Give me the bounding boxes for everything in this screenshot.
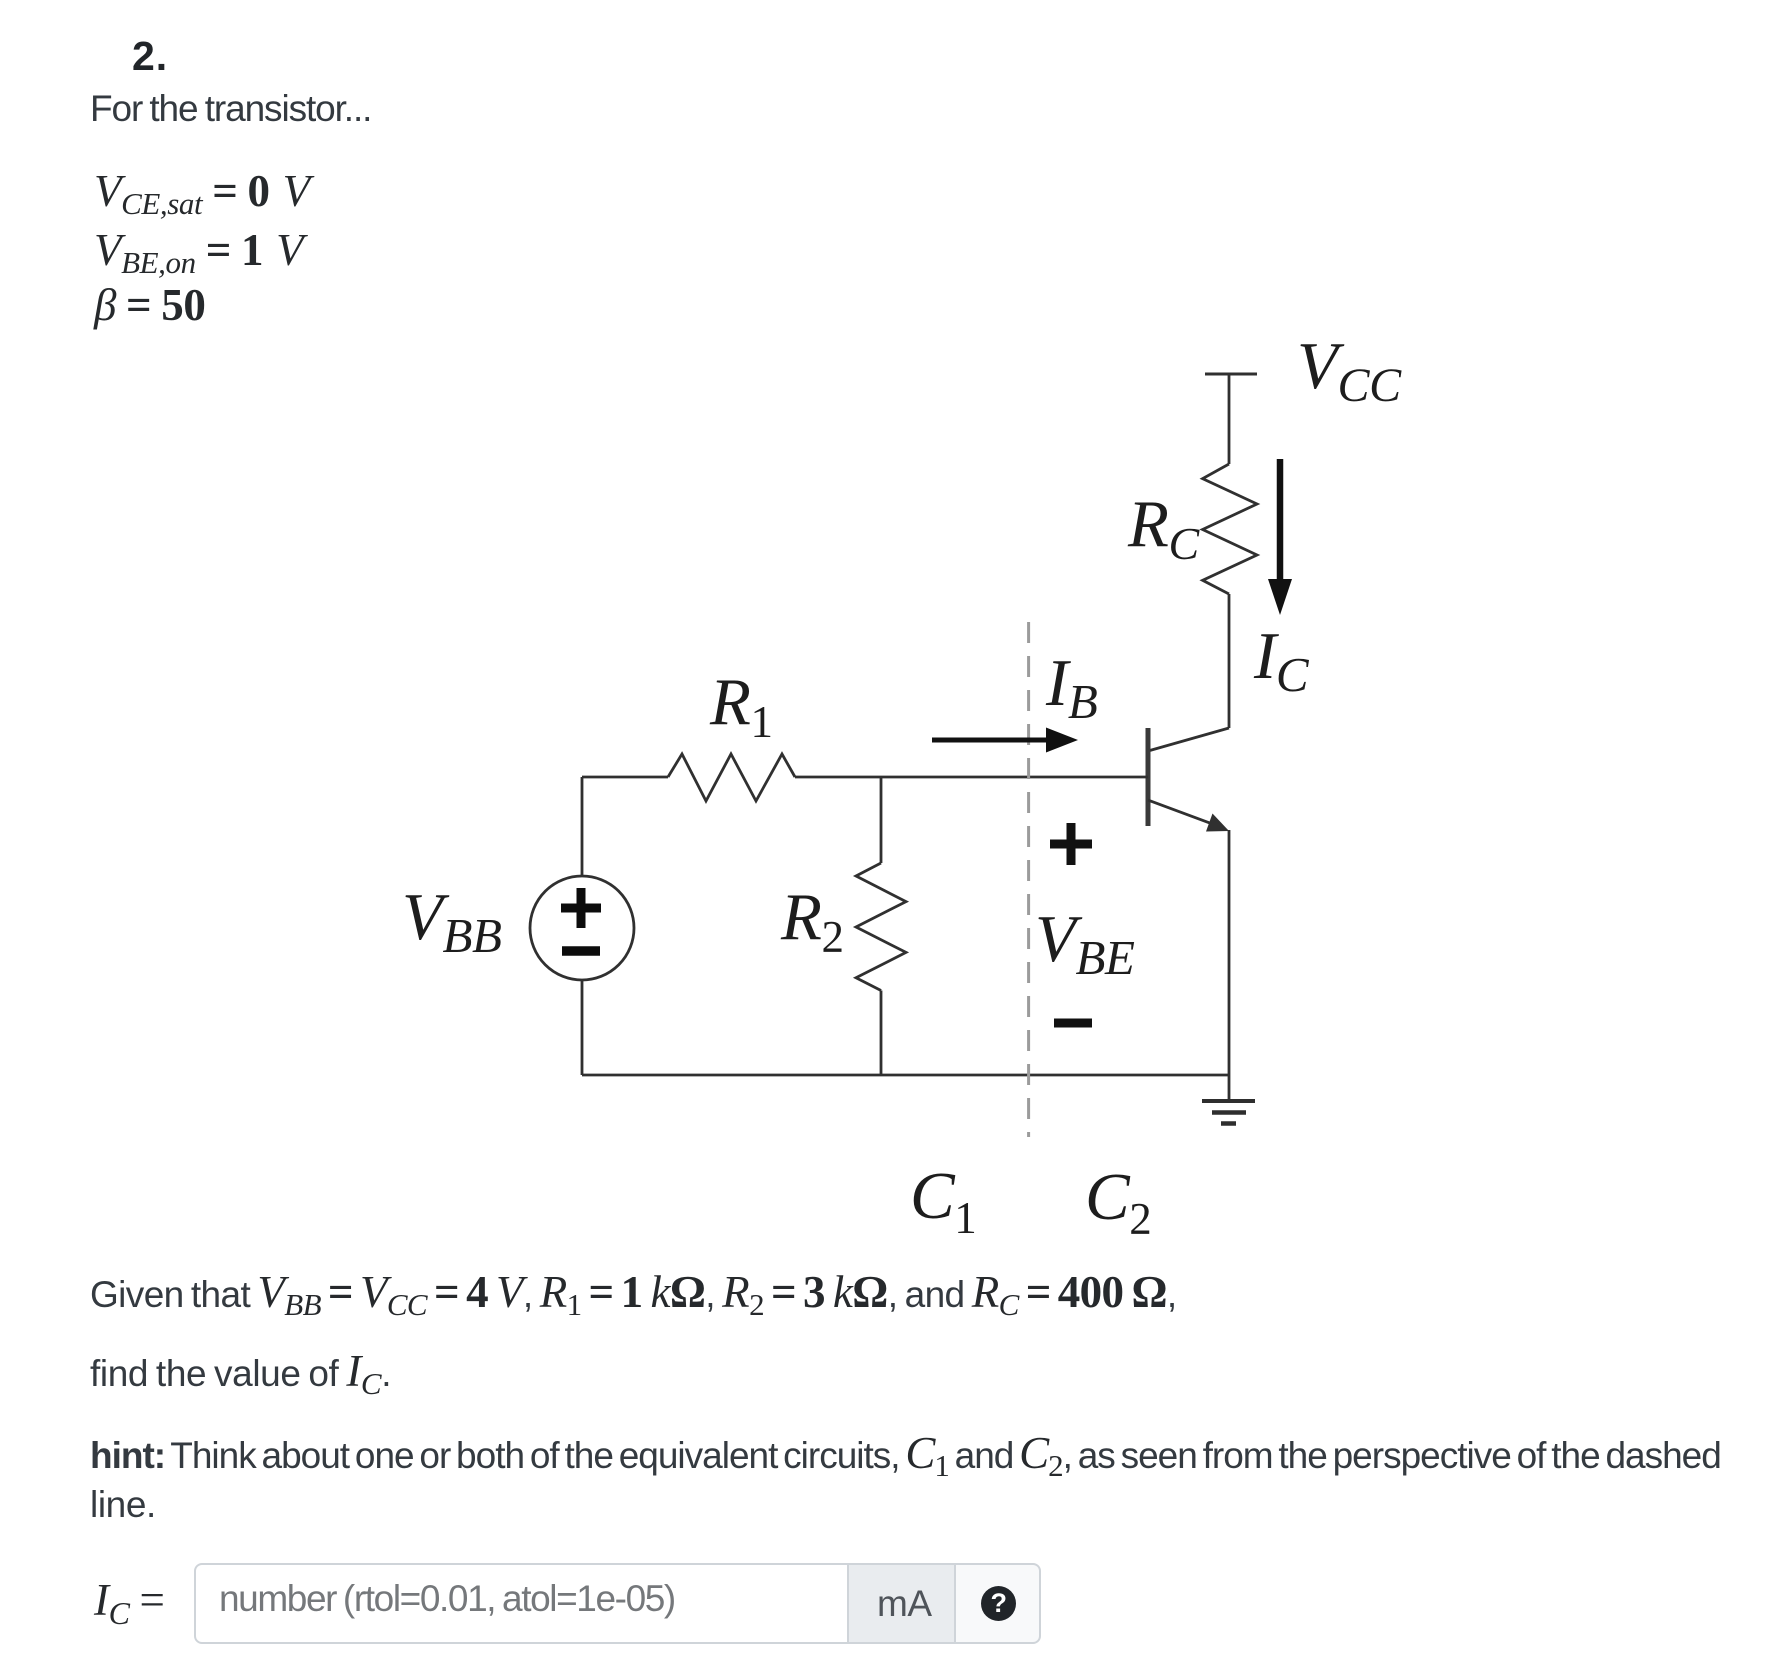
svg-text:VCC: VCC bbox=[1297, 329, 1402, 412]
wire left bottom bbox=[581, 980, 584, 1075]
transistor Q1 base bar bbox=[1146, 728, 1151, 826]
transistor Q1 collector lead bbox=[1148, 728, 1229, 751]
plus sign of VBE polarity bbox=[1050, 823, 1092, 865]
minus sign of VBE polarity bbox=[1054, 1019, 1092, 1028]
wire emitter down bbox=[1228, 830, 1231, 1075]
intro line bbox=[90, 88, 371, 130]
transistor Q1 emitter arrowhead bbox=[1206, 814, 1229, 832]
heading number bbox=[132, 33, 168, 80]
hint paragraph bbox=[90, 1427, 1721, 1484]
wire R2 branch top bbox=[880, 777, 883, 863]
wire VBB to R1 bbox=[582, 776, 668, 779]
resistor RC zigzag bbox=[1203, 464, 1257, 594]
svg-text:R1: R1 bbox=[709, 665, 773, 747]
given-that paragraph bbox=[90, 1266, 1177, 1323]
math line 3 bbox=[94, 279, 205, 331]
voltage source VBB circle bbox=[530, 876, 634, 980]
svg-text:IC: IC bbox=[1253, 619, 1310, 702]
wire base bbox=[795, 776, 1148, 779]
svg-text:C2: C2 bbox=[1085, 1160, 1151, 1244]
svg-text:R2: R2 bbox=[780, 880, 844, 962]
Vcc power rail T symbol bbox=[1205, 373, 1257, 376]
current arrow IC bbox=[1277, 459, 1284, 585]
resistor R2 zigzag bbox=[856, 863, 906, 991]
answer row label IC= bbox=[94, 1574, 175, 1632]
svg-text:RC: RC bbox=[1127, 487, 1201, 569]
wire Rc to collector bbox=[1228, 594, 1231, 728]
wire left top bbox=[581, 777, 584, 876]
svg-text:C1: C1 bbox=[910, 1159, 976, 1243]
wire R2 branch bottom bbox=[880, 991, 883, 1076]
wire bottom rail bbox=[582, 1074, 1229, 1077]
svg-text:VBB: VBB bbox=[402, 880, 502, 963]
answer input group bbox=[194, 1563, 1041, 1644]
current arrow IB bbox=[932, 738, 1050, 743]
plus sign inside VBB source bbox=[561, 888, 601, 928]
resistor R1 zigzag bbox=[668, 754, 795, 801]
math line 1 bbox=[94, 165, 310, 222]
help question icon bbox=[981, 1586, 1016, 1621]
transistor Q1 emitter lead bbox=[1148, 800, 1214, 825]
dashed cut line C1/C2 bbox=[1027, 622, 1030, 1137]
wire Vcc to Rc bbox=[1228, 374, 1231, 464]
svg-text:VBE: VBE bbox=[1035, 902, 1135, 985]
find-the-value paragraph bbox=[90, 1345, 391, 1402]
svg-text:IB: IB bbox=[1045, 646, 1097, 729]
ground symbol bbox=[1202, 1101, 1255, 1124]
minus sign inside VBB source bbox=[562, 946, 600, 956]
math line 2 bbox=[94, 224, 303, 281]
ground stem bbox=[1228, 1075, 1231, 1101]
